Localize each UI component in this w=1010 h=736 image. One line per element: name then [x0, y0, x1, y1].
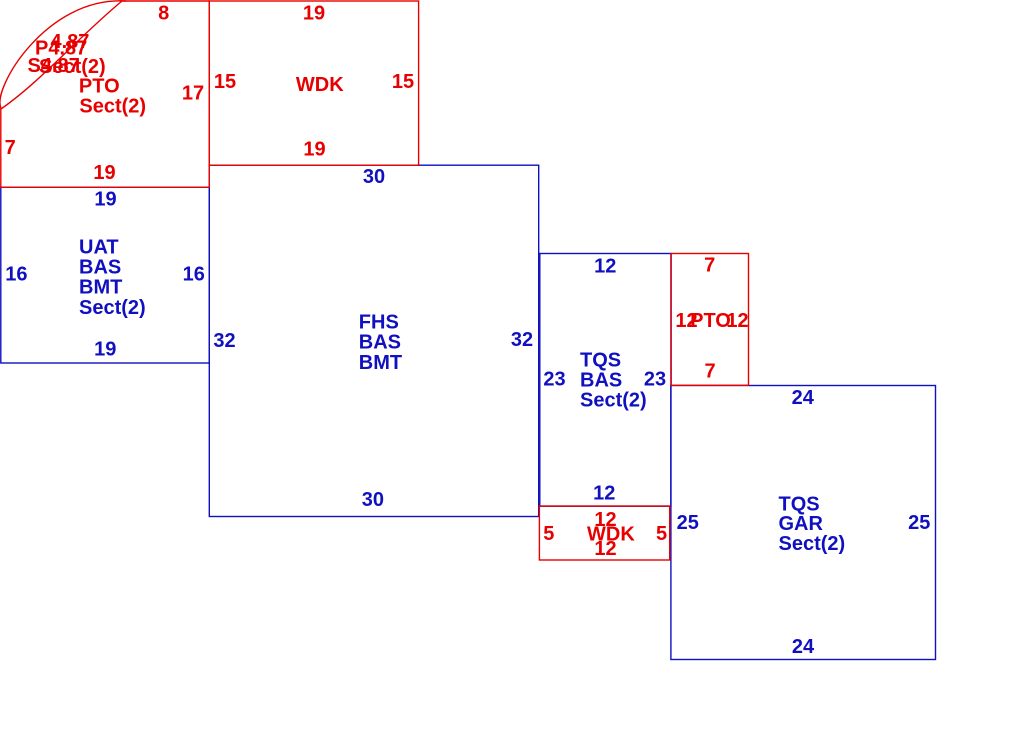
- svg-text:BAS: BAS: [79, 257, 121, 279]
- svg-text:19: 19: [93, 162, 115, 184]
- svg-text:12: 12: [594, 255, 616, 277]
- inner arc of PTO curved corner: [1, 1, 122, 109]
- svg-text:FHS: FHS: [359, 311, 399, 333]
- svg-text:16: 16: [183, 264, 205, 286]
- svg-text:12: 12: [593, 482, 615, 504]
- area TQS GAR Sect(2) outline: [671, 386, 936, 660]
- svg-text:TQS: TQS: [580, 350, 621, 372]
- svg-text:TQS: TQS: [779, 493, 820, 515]
- svg-text:24: 24: [792, 387, 815, 409]
- svg-text:7: 7: [704, 361, 715, 383]
- svg-text:7: 7: [704, 255, 715, 277]
- svg-text:17: 17: [182, 83, 204, 105]
- svg-text:Sect(2): Sect(2): [779, 533, 846, 555]
- svg-text:Sect(2): Sect(2): [580, 389, 647, 411]
- svg-text:5: 5: [656, 523, 667, 545]
- svg-text:19: 19: [303, 139, 325, 161]
- area PTO (right patio) outline: [671, 254, 748, 386]
- svg-text:BMT: BMT: [79, 277, 122, 299]
- svg-text:Sect(2): Sect(2): [39, 56, 106, 78]
- svg-text:12: 12: [594, 538, 616, 560]
- area PTO Sect(2) outline with curved corner: [0, 1, 209, 188]
- svg-text:19: 19: [303, 3, 325, 25]
- svg-text:32: 32: [213, 330, 235, 352]
- svg-text:WDK: WDK: [296, 74, 344, 96]
- svg-text:19: 19: [94, 339, 116, 361]
- svg-text:UAT: UAT: [79, 237, 119, 259]
- outer arc of PTO curved corner: [0, 1, 126, 108]
- area TQS BAS Sect(2) outline: [540, 254, 671, 507]
- svg-text:15: 15: [214, 71, 236, 93]
- svg-text:BMT: BMT: [359, 352, 402, 374]
- svg-text:BAS: BAS: [359, 332, 401, 354]
- svg-text:Sect(2): Sect(2): [79, 96, 146, 118]
- svg-text:7: 7: [5, 137, 16, 159]
- svg-text:8: 8: [158, 3, 169, 25]
- svg-text:30: 30: [362, 489, 384, 511]
- svg-text:BAS: BAS: [580, 369, 622, 391]
- svg-text:25: 25: [908, 512, 930, 534]
- svg-text:30: 30: [363, 166, 385, 188]
- svg-text:32: 32: [511, 329, 533, 351]
- svg-text:PTO: PTO: [79, 75, 120, 97]
- svg-text:5: 5: [543, 523, 554, 545]
- svg-text:GAR: GAR: [779, 513, 824, 535]
- area FHS BAS BMT outline: [209, 165, 538, 516]
- svg-text:PTO: PTO: [690, 310, 731, 332]
- svg-text:23: 23: [644, 369, 666, 391]
- svg-text:16: 16: [5, 264, 27, 286]
- svg-text:12: 12: [726, 310, 748, 332]
- svg-text:25: 25: [677, 512, 699, 534]
- svg-text:15: 15: [392, 71, 414, 93]
- svg-text:19: 19: [94, 189, 116, 211]
- svg-text:Sect(2): Sect(2): [79, 297, 146, 319]
- area WDK (top deck) outline: [209, 1, 418, 165]
- area WDK (bottom deck) outline: [539, 506, 669, 560]
- area UAT BAS BMT Sect(2) outline: [1, 187, 210, 363]
- svg-text:23: 23: [543, 369, 565, 391]
- svg-text:24: 24: [792, 636, 815, 658]
